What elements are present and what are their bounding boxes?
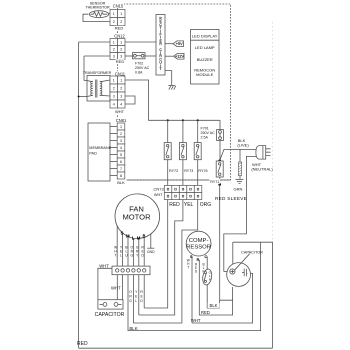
svg-text:4: 4: [120, 103, 122, 107]
wire capacitor to strip t1: [116, 275, 118, 300]
svg-text:2: 2: [113, 20, 115, 24]
svg-text:C: C: [204, 255, 207, 259]
PCB dashed border: [118, 4, 231, 180]
svg-text:2: 2: [120, 20, 122, 24]
wire transformer lower to left bus: [79, 96, 87, 98]
svg-text:(LIVE): (LIVE): [237, 142, 249, 147]
svg-text:GND: GND: [147, 250, 155, 254]
transformer T1: [83, 71, 112, 101]
wire strip t3 black long: [128, 242, 261, 330]
thermistor sensor: [85, 1, 110, 17]
node relay bus junction 3: [197, 119, 199, 121]
svg-text:WHT: WHT: [111, 285, 121, 290]
svg-text:SENSOR: SENSOR: [90, 1, 106, 5]
svg-text:2: 2: [120, 48, 122, 52]
svg-text:BLK: BLK: [210, 303, 218, 308]
wire CN73 orange down: [133, 200, 197, 324]
svg-text:ORG: ORG: [200, 202, 212, 208]
wire capacitor top path red: [233, 242, 273, 348]
wire strip t5 yellow: [138, 275, 140, 315]
fuse F702: [133, 53, 150, 75]
green sleeve hatched: [238, 162, 241, 176]
wire bus to RY72: [167, 120, 169, 142]
svg-text:3: 3: [113, 55, 115, 59]
wire CN12 pin1 to left bus: [79, 41, 110, 43]
svg-text:2: 2: [120, 132, 122, 136]
relay RY71: [210, 161, 224, 184]
svg-text:RY71: RY71: [210, 180, 219, 184]
node RY71 bottom: [218, 183, 221, 186]
ground green: [236, 180, 244, 184]
svg-text:RY76: RY76: [198, 169, 207, 173]
wire fuse F702 to rectifier: [145, 55, 156, 57]
wire CN11 pin1 feed to relay bus: [125, 80, 220, 120]
svg-text:BUZZER: BUZZER: [197, 57, 213, 62]
svg-text:WHT: WHT: [191, 318, 201, 323]
svg-text:1: 1: [120, 12, 122, 16]
membrane pad: [88, 123, 112, 181]
svg-text:TRANSFORMER: TRANSFORMER: [83, 71, 112, 75]
svg-text:CN81: CN81: [116, 118, 127, 123]
svg-text:5: 5: [120, 153, 122, 157]
connector CN11: [110, 71, 126, 114]
svg-text:250V AC: 250V AC: [201, 131, 216, 135]
svg-text:0.8A: 0.8A: [135, 71, 143, 75]
wire rectifier to +5V: [165, 43, 173, 45]
wire live from plug: [220, 149, 256, 160]
svg-text:2: 2: [120, 87, 122, 91]
svg-text:RY73: RY73: [184, 169, 193, 173]
compressor wire labels vertical: [187, 259, 206, 274]
svg-text:PAD: PAD: [89, 151, 97, 155]
wire RY71 bottom: [219, 177, 221, 185]
wire CN12 pin1 to rectifier: [125, 41, 156, 43]
connector CN15: [110, 3, 125, 30]
connector CN12: [110, 33, 126, 64]
svg-text:S: S: [121, 231, 124, 236]
svg-text:YEL: YEL: [184, 202, 194, 208]
svg-text:RESSOR: RESSOR: [186, 245, 211, 251]
wire neutral from plug: [224, 156, 256, 271]
svg-text:RED: RED: [77, 341, 88, 347]
overload protector OLP: [201, 268, 212, 285]
svg-text:2: 2: [113, 48, 115, 52]
svg-text:1: 1: [113, 41, 115, 45]
svg-text:LED DISPLAY: LED DISPLAY: [192, 33, 218, 38]
svg-text:+12V: +12V: [175, 55, 184, 59]
svg-text:6: 6: [120, 160, 122, 164]
wire capacitor left lead: [224, 271, 230, 273]
svg-text:2: 2: [113, 87, 115, 91]
svg-text:250V AC: 250V AC: [135, 66, 150, 70]
wire rectifier to +12V: [165, 55, 173, 57]
wire CN73 red down: [144, 200, 168, 309]
wire strip t6 red: [143, 275, 145, 308]
svg-text:MODULE: MODULE: [196, 72, 213, 77]
svg-text:M: M: [137, 235, 141, 240]
wire bottom red: [79, 347, 273, 349]
svg-text:MEMBRANE: MEMBRANE: [89, 146, 111, 150]
svg-text:8: 8: [120, 174, 122, 178]
wire strip t4 orange: [132, 275, 134, 323]
svg-text:CN12: CN12: [114, 33, 125, 38]
svg-text:4: 4: [113, 103, 115, 107]
wire into capacitor top: [232, 242, 234, 266]
svg-text:3: 3: [120, 95, 122, 99]
fuse F701: [201, 126, 224, 140]
wire fan motor ground: [150, 234, 152, 248]
svg-text:M: M: [126, 234, 130, 239]
wire compressor S white: [191, 256, 193, 323]
svg-text:1: 1: [113, 79, 115, 83]
wire CN12 pin3 to transformer: [84, 56, 110, 81]
svg-text:+5V: +5V: [176, 42, 183, 46]
wire compressor C black: [207, 256, 219, 308]
capacitor compressor: [227, 250, 263, 286]
svg-text:WHT: WHT: [115, 109, 125, 114]
svg-text:B: B: [143, 234, 146, 239]
wire CN12 pin3 to fuse F702: [125, 55, 133, 57]
wire thermistor to CN15 pin1: [107, 13, 110, 15]
plug power: [237, 138, 273, 171]
svg-text:RED SLEEVE: RED SLEEVE: [215, 196, 247, 201]
wire bus to RY73: [182, 120, 184, 142]
svg-text:RY72: RY72: [169, 169, 178, 173]
wire green to ground: [239, 176, 241, 180]
svg-text:THERMISTOR: THERMISTOR: [85, 6, 110, 10]
relay RY72: [164, 143, 178, 173]
svg-text:3: 3: [120, 139, 122, 143]
ground fan motor: [147, 247, 154, 249]
svg-text:7: 7: [120, 167, 122, 171]
svg-text:RED: RED: [115, 26, 124, 31]
svg-text:LED LAMP: LED LAMP: [195, 45, 215, 50]
svg-text:RED: RED: [116, 59, 125, 64]
junction: [78, 96, 80, 98]
wire green from plug: [239, 149, 241, 162]
relay RY76: [194, 143, 207, 173]
node relay bus junction 2: [182, 119, 184, 121]
label BLK compressor: [208, 303, 220, 308]
wire thermistor loop: [83, 14, 110, 21]
fan motor M1: [115, 194, 160, 241]
wire RY76 to CN73: [197, 160, 199, 186]
svg-text:CN15: CN15: [113, 4, 124, 9]
svg-text:RED: RED: [169, 202, 180, 208]
svg-text:CAPACITOR: CAPACITOR: [241, 250, 263, 254]
svg-text:F701: F701: [201, 126, 209, 130]
wire strip t1 white left: [98, 268, 112, 299]
capacitor fan: [95, 300, 125, 319]
wire rectifier ground: [165, 71, 172, 85]
svg-text:WHT: WHT: [99, 263, 109, 268]
svg-text:3: 3: [113, 95, 115, 99]
svg-text:1: 1: [120, 125, 122, 129]
node RY71 top: [218, 159, 221, 162]
PCB border bottom solid: [118, 179, 231, 181]
svg-text:T: T: [160, 67, 162, 71]
display module box: [191, 30, 220, 85]
svg-text:BLK: BLK: [117, 180, 125, 185]
wire capacitor right lead to white: [192, 274, 253, 324]
relay RY73: [179, 143, 193, 173]
svg-text:CAPACITOR: CAPACITOR: [95, 312, 125, 318]
wire CN73 yellow down: [139, 200, 183, 316]
svg-text:BLK: BLK: [129, 326, 137, 331]
svg-text:1: 1: [120, 79, 122, 83]
wire compressor R red: [199, 260, 232, 315]
wire left bus RED: [78, 42, 80, 348]
svg-text:3: 3: [120, 55, 122, 59]
svg-text:CN11: CN11: [115, 71, 126, 76]
membrane pad wires: [110, 127, 117, 176]
svg-text:(NEUTRAL): (NEUTRAL): [251, 167, 273, 172]
svg-text:F702: F702: [135, 61, 143, 65]
svg-text:1: 1: [113, 12, 115, 16]
wire RY73 to CN73: [182, 160, 184, 186]
wire F701 to RY71: [219, 141, 221, 162]
node +12V: [174, 53, 185, 59]
node +5V: [173, 41, 183, 47]
rectifier circuit U71: [156, 15, 165, 76]
svg-text:COMP-: COMP-: [189, 238, 209, 244]
wire bus to F701: [219, 120, 221, 129]
wire strip t2 to capacitor: [122, 275, 124, 300]
terminal strip: [112, 266, 150, 275]
svg-text:RED: RED: [201, 310, 210, 315]
svg-text:R: R: [197, 258, 200, 262]
svg-text:MOTOR: MOTOR: [122, 213, 151, 222]
svg-text:CN73: CN73: [154, 186, 165, 191]
node relay bus junction 1: [167, 119, 169, 121]
svg-text:4: 4: [120, 146, 122, 150]
svg-text:GRN: GRN: [234, 187, 243, 192]
wire RY72 to CN73: [167, 160, 169, 186]
strip lower labels vertical: [129, 290, 143, 303]
svg-text:WHT: WHT: [154, 193, 163, 197]
svg-text:2.5A: 2.5A: [201, 136, 209, 140]
connector CN73: [154, 186, 212, 209]
connector CN81: [116, 118, 128, 185]
ground rectifier chassis: [168, 85, 176, 89]
wire bus to RY76: [197, 120, 199, 142]
fan wire labels vertical: [114, 245, 144, 257]
svg-text:1: 1: [120, 41, 122, 45]
wire red sleeve to capacitor: [220, 185, 233, 301]
faint fold line right: [271, 22, 273, 241]
fan motor wires down: [117, 226, 144, 266]
wire CN11 pin3-4 jumper: [125, 96, 135, 104]
compressor M2: [186, 231, 211, 262]
